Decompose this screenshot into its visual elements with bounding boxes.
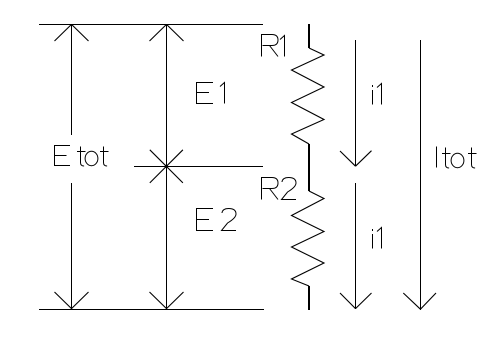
arrowhead Itot: [403, 293, 436, 309]
label i1 upper: [373, 84, 382, 105]
arrowhead E tot down: [55, 292, 89, 309]
arrowhead E tot up: [55, 24, 89, 41]
arrowhead E1 up: [150, 24, 184, 41]
arrow line i1 lower: [355, 183, 356, 309]
wire middle node line: [134, 166, 263, 167]
wire R2 bottom lead: [308, 286, 310, 310]
label Itot: [437, 147, 477, 169]
arrow line E tot upper: [71, 24, 72, 135]
arrow line Itot: [420, 40, 421, 310]
arrow line E1 E2: [166, 24, 167, 309]
arrowhead i1 lower: [340, 293, 372, 309]
node X junction of E1/E2 arrowheads: [150, 150, 183, 183]
arrowhead i1 upper: [340, 151, 372, 167]
wire R1-R2 junction lead: [308, 144, 310, 191]
label E tot: [55, 146, 109, 167]
wire top rail: [39, 24, 263, 25]
label R2: [262, 178, 297, 200]
resistor R1: [292, 48, 325, 144]
arrowhead E2 down: [150, 292, 184, 309]
arrow line E tot lower: [71, 183, 72, 309]
arrow line i1 upper: [355, 40, 356, 166]
label E1: [197, 83, 225, 104]
label R1: [262, 35, 285, 57]
resistor R2: [292, 191, 325, 286]
label i1 lower: [373, 228, 382, 249]
wire bottom rail: [39, 309, 264, 310]
label E 2: [197, 209, 237, 231]
wire R1 top lead: [308, 24, 310, 48]
